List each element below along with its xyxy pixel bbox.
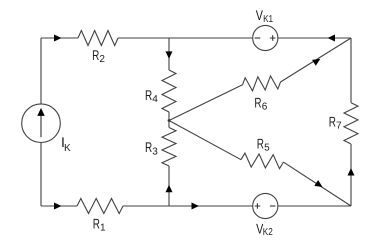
- svg-text:2: 2: [99, 54, 105, 65]
- svg-text:R: R: [254, 94, 261, 110]
- svg-text:6: 6: [262, 101, 268, 112]
- svg-text:R: R: [92, 47, 99, 63]
- svg-text:R: R: [145, 139, 152, 155]
- svg-text:R: R: [257, 135, 264, 151]
- svg-text:R: R: [329, 114, 336, 130]
- svg-text:4: 4: [152, 94, 158, 105]
- svg-text:K1: K1: [263, 14, 273, 25]
- svg-text:5: 5: [264, 143, 270, 154]
- svg-text:R: R: [145, 87, 152, 103]
- svg-text:K: K: [64, 143, 71, 154]
- svg-text:K2: K2: [263, 227, 273, 238]
- svg-text:7: 7: [336, 121, 342, 132]
- svg-text:1: 1: [100, 223, 106, 234]
- svg-text:R: R: [93, 216, 100, 232]
- svg-text:3: 3: [152, 146, 158, 157]
